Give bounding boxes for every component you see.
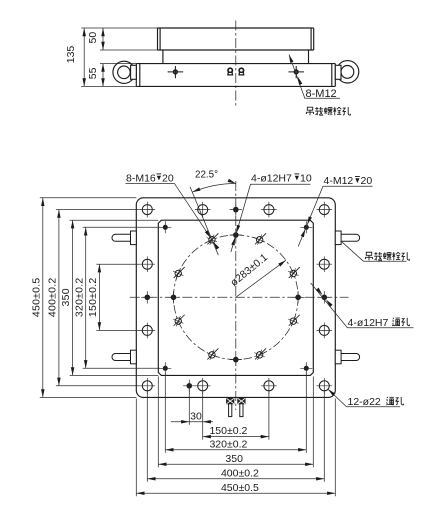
- dim 135: [65, 28, 86, 86]
- 4 x dia12H7 through holes: [141, 203, 330, 392]
- dim 320+-0.2 bottom: [165, 438, 306, 451]
- dim 400+-0.2 left: [47, 210, 61, 386]
- svg-text:4-ø12H7: 4-ø12H7: [348, 317, 389, 329]
- dim dia283 leader: [228, 251, 287, 297]
- svg-text:4-ø12H7: 4-ø12H7: [251, 172, 292, 184]
- svg-text:30: 30: [190, 410, 202, 422]
- label 4-M12 deep 20: [298, 175, 372, 247]
- 8 x M16 tapped holes on bolt circle: [171, 232, 301, 362]
- svg-text:20: 20: [162, 172, 174, 184]
- svg-text:8-M12: 8-M12: [306, 88, 337, 100]
- bottom extension lines: [136, 373, 335, 496]
- svg-text:150±0.2: 150±0.2: [209, 425, 247, 437]
- two studs on side face: [228, 68, 244, 75]
- svg-text:10: 10: [300, 172, 312, 184]
- svg-text:55: 55: [87, 67, 99, 79]
- plan left bottom eyebolt: [112, 350, 136, 364]
- leader 8-M12 lifting bolt holes (side view): [287, 54, 340, 100]
- lower plate side view: [81, 64, 335, 87]
- label 4-d12H7 through holes: [311, 283, 414, 329]
- plan left top eyebolt: [112, 231, 136, 245]
- label lifting-bolt-holes (CJK) side view: [306, 107, 350, 115]
- 4 x M12 corner holes: [159, 221, 312, 374]
- svg-text:135: 135: [65, 46, 77, 64]
- label lifting bolt holes right (CJK): [342, 242, 410, 261]
- svg-text:450±0.5: 450±0.5: [30, 277, 42, 317]
- svg-text:400±0.2: 400±0.2: [47, 277, 59, 317]
- dim 30 bottom: [171, 410, 213, 423]
- 4 x dia12H7 deep10 holes on bolt circle: [167, 229, 304, 366]
- dim 150+-0.2 bottom: [203, 425, 269, 438]
- label 4-d12H7 deep 10: [231, 172, 312, 252]
- svg-text:350: 350: [225, 453, 243, 465]
- dim 450+-0.5 left: [30, 198, 44, 398]
- svg-text:4-M12: 4-M12: [324, 175, 354, 187]
- left M12 lifting hole (side view): [168, 66, 184, 78]
- 22.5 deg construction line: [190, 187, 218, 255]
- 12 x dia22 through holes: [140, 202, 333, 394]
- svg-text:320±0.2: 320±0.2: [209, 438, 247, 450]
- bolt circle dia 283: [174, 235, 299, 360]
- svg-text:450±0.5: 450±0.5: [221, 482, 259, 494]
- dim 150+-0.2 left: [87, 264, 101, 330]
- dim 50: [87, 28, 105, 50]
- svg-text:320±0.2: 320±0.2: [73, 277, 85, 317]
- inner plate 350x350: [158, 220, 313, 375]
- left eyebolt (side view): [113, 61, 136, 83]
- svg-text:22.5°: 22.5°: [195, 170, 218, 181]
- svg-text:350: 350: [60, 288, 72, 306]
- dim 350 left: [60, 220, 74, 375]
- label 12-d22 through holes: [327, 388, 404, 408]
- dim 450+-0.5 bottom: [136, 482, 335, 495]
- outer plate 450x450: [136, 198, 335, 398]
- svg-text:50: 50: [87, 32, 99, 44]
- right M12 lifting hole (side view): [288, 66, 304, 78]
- plan vertical centerline: [235, 181, 237, 410]
- side view centerline: [235, 21, 237, 109]
- svg-text:12-ø22: 12-ø22: [348, 396, 381, 408]
- plan right bottom eyebolt: [335, 350, 359, 364]
- right eyebolt (side view): [335, 61, 359, 83]
- middle plate side view: [163, 50, 309, 64]
- svg-text:150±0.2: 150±0.2: [87, 277, 99, 317]
- upper plate side view: [81, 28, 314, 50]
- dim 350 bottom: [158, 453, 313, 466]
- plan right top eyebolt: [335, 231, 359, 245]
- plan horizontal centerline: [130, 296, 349, 298]
- label 8-M16 deep 20: [126, 172, 220, 249]
- svg-text:400±0.2: 400±0.2: [221, 467, 259, 479]
- svg-text:8-M16: 8-M16: [126, 172, 156, 184]
- bottom studs (plan): [227, 398, 246, 416]
- angular dim 22.5: [192, 170, 237, 194]
- dim 55: [87, 64, 105, 87]
- dim 400+-0.2 bottom: [147, 467, 324, 480]
- left extension lines: [40, 198, 160, 398]
- svg-text:20: 20: [361, 175, 373, 187]
- dim 320+-0.2 left: [73, 227, 87, 368]
